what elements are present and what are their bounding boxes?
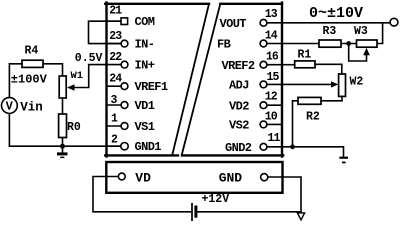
svg-text:W3: W3 [354,25,368,38]
svg-text:VOUT: VOUT [220,17,247,31]
svg-text:GND1: GND1 [135,140,162,154]
svg-text:VD1: VD1 [135,99,155,113]
svg-text:R0: R0 [67,121,81,134]
svg-text:0.5V: 0.5V [75,52,103,65]
svg-text:11: 11 [268,132,281,145]
svg-text:GND: GND [219,170,243,185]
svg-text:2: 2 [111,134,118,147]
svg-text:VD2: VD2 [229,99,249,113]
svg-text:GND2: GND2 [225,141,252,155]
svg-text:COM: COM [135,15,155,29]
svg-text:VREF1: VREF1 [135,80,168,94]
svg-text:IN+: IN+ [135,59,155,73]
svg-text:0~±10V: 0~±10V [309,5,363,22]
svg-text:VS1: VS1 [135,120,155,134]
svg-text:W2: W2 [350,76,364,89]
svg-text:W1: W1 [71,70,84,82]
svg-text:24: 24 [109,73,122,86]
svg-text:V: V [6,100,14,114]
svg-text:1: 1 [111,113,118,126]
svg-text:VD: VD [135,170,151,185]
svg-text:Vin: Vin [20,101,43,115]
svg-text:23: 23 [109,30,122,43]
svg-text:15: 15 [267,71,280,84]
svg-text:14: 14 [265,30,278,43]
svg-text:+12V: +12V [202,193,230,206]
svg-text:21: 21 [109,5,122,18]
svg-text:R1: R1 [298,48,312,61]
svg-text:16: 16 [266,51,279,64]
svg-text:3: 3 [111,94,118,107]
svg-text:VS2: VS2 [229,119,249,133]
svg-text:13: 13 [265,8,278,21]
svg-text:22: 22 [109,51,122,64]
svg-text:ADJ: ADJ [229,79,249,93]
svg-text:10: 10 [265,111,278,124]
svg-text:12: 12 [265,91,278,104]
svg-text:R4: R4 [25,45,39,58]
svg-text:VREF2: VREF2 [222,59,255,73]
svg-text:±100V: ±100V [11,73,48,87]
svg-text:IN-: IN- [135,38,155,52]
svg-text:R3: R3 [323,25,337,38]
svg-text:R2: R2 [306,110,320,123]
svg-text:FB: FB [217,38,231,52]
